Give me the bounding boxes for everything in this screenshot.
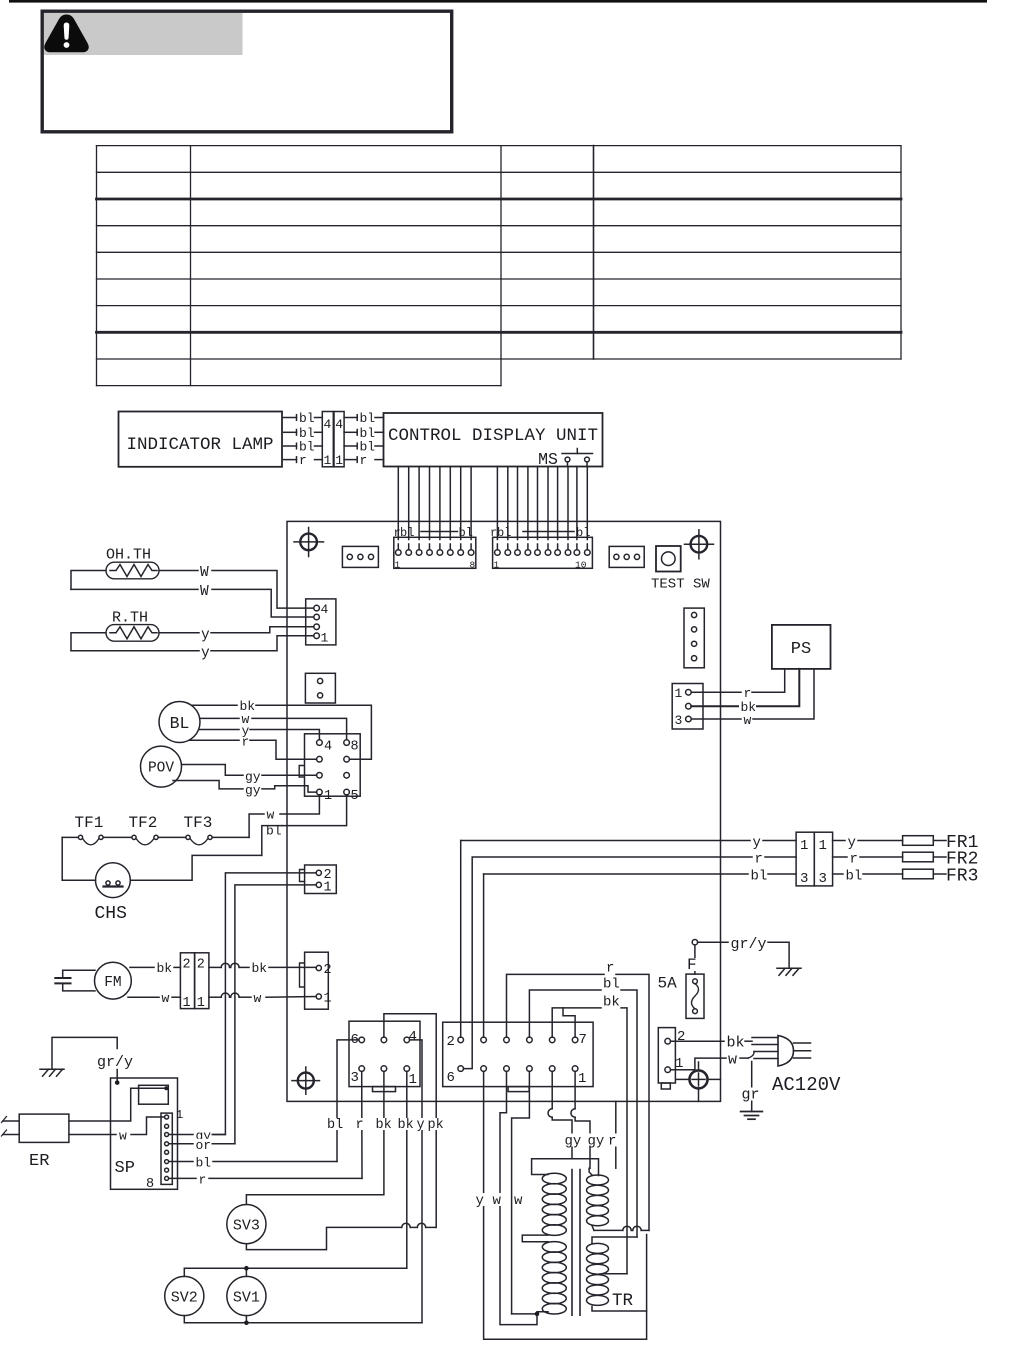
svg-text:w: w xyxy=(744,713,752,728)
wire bk CN-D pin2 to PS xyxy=(691,669,799,715)
svg-text:W: W xyxy=(200,584,209,600)
mounting hole bottom-left xyxy=(292,1067,320,1094)
AC plug cord xyxy=(748,1038,778,1059)
wire w ER to SP pin1 xyxy=(69,1117,164,1144)
solenoid valve SV2 xyxy=(165,1276,204,1315)
wire TR primary bottom lead xyxy=(512,1312,548,1317)
wire r to fuse FR2 xyxy=(833,852,903,868)
svg-text:y: y xyxy=(201,646,210,662)
svg-text:1: 1 xyxy=(395,560,401,571)
svg-text:bl: bl xyxy=(327,1118,343,1133)
wire y BL to CN-G pin4 xyxy=(199,724,320,740)
svg-text:8: 8 xyxy=(470,560,476,571)
svg-text:CHS: CHS xyxy=(95,904,127,924)
connector CN1 (8 pin) xyxy=(394,537,476,570)
mounting hole top-left xyxy=(294,528,324,557)
svg-text:5A: 5A xyxy=(658,975,678,993)
thermistor R.TH xyxy=(106,625,159,642)
indicator lamp box xyxy=(119,412,283,467)
wire bundle CDU to CN2 (10 wires) xyxy=(497,467,587,540)
wire bl CN-M to FR3 xyxy=(484,869,796,1038)
svg-text:w: w xyxy=(514,1193,523,1209)
solenoid valve SV1 xyxy=(227,1276,266,1315)
svg-text:2: 2 xyxy=(183,958,191,973)
thermal fuse TF2 label xyxy=(129,814,158,832)
svg-text:SV2: SV2 xyxy=(171,1290,198,1307)
svg-text:4: 4 xyxy=(324,417,332,432)
transformer TR primary winding lower xyxy=(542,1242,566,1314)
svg-text:8: 8 xyxy=(146,1177,154,1192)
svg-text:w: w xyxy=(267,808,275,823)
wire gy POV to CN-G pin1 xyxy=(173,781,317,799)
wire bl to fuse FR3 xyxy=(833,869,903,885)
thermal fuse TF3 label xyxy=(184,814,213,832)
svg-text:gr/y: gr/y xyxy=(731,936,767,953)
svg-text:W: W xyxy=(200,565,209,581)
thermistor OH.TH xyxy=(106,562,159,579)
svg-text:10: 10 xyxy=(575,560,587,571)
svg-text:1: 1 xyxy=(819,838,827,854)
svg-text:bk: bk xyxy=(603,994,620,1010)
fan motor FM xyxy=(95,962,132,999)
svg-text:1: 1 xyxy=(409,1072,417,1088)
svg-text:bl: bl xyxy=(751,869,768,885)
wire w CN-I to CN-J pin1 xyxy=(209,991,316,1006)
svg-text:1: 1 xyxy=(324,453,332,468)
AC120V label xyxy=(772,1074,841,1096)
wire bk CN-L pin1 to SV1/SV2 top bus xyxy=(406,1071,408,1268)
wires indicator lamp to connector (bl,bl,bl,r) xyxy=(284,411,323,468)
connector CN-I (2x2) xyxy=(180,953,209,1011)
wire bk BL to CN-G pin7 xyxy=(192,699,372,759)
thermal fuse TF3 xyxy=(186,835,212,844)
thermistor OH.TH label xyxy=(106,547,151,564)
wire r CN-M pin3 to TR secondary xyxy=(507,961,650,1231)
svg-text:1: 1 xyxy=(324,789,332,804)
connector CN-FR (1/3 pair) xyxy=(796,832,833,887)
wire W OH.TH top to CN-E pin4 xyxy=(71,565,314,608)
svg-text:r: r xyxy=(608,1134,616,1150)
svg-text:y: y xyxy=(848,835,856,851)
svg-text:TR: TR xyxy=(612,1291,634,1311)
wire CN-M pin7 stub xyxy=(563,1008,575,1037)
svg-text:bl: bl xyxy=(266,824,282,839)
svg-text:4: 4 xyxy=(324,740,332,755)
svg-text:bl: bl xyxy=(360,411,376,426)
svg-text:r: r xyxy=(606,961,614,977)
wire y R.TH return to CN-E pin1 xyxy=(71,636,314,662)
thermal fuse TF2 xyxy=(132,835,158,844)
svg-text:w: w xyxy=(493,1193,502,1209)
svg-text:pk: pk xyxy=(428,1118,444,1133)
connector CN1 (8 pin) label row xyxy=(394,526,473,540)
connector CN-M (12 pin) xyxy=(443,1022,593,1091)
wire r CN-L pin3 to SP r xyxy=(361,1071,363,1178)
svg-text:1: 1 xyxy=(578,1071,586,1087)
wire y to fuse FR1 xyxy=(833,835,903,851)
wire y CN-L pin4 to SV1/SV2 bottom bus xyxy=(410,1040,422,1323)
control display unit U1 xyxy=(384,413,603,467)
wire ER to SP block xyxy=(69,1088,131,1121)
svg-text:gy: gy xyxy=(565,1134,582,1150)
connector CN-B (3 pin) xyxy=(609,546,644,567)
connector CN-G (8 pin) xyxy=(299,734,360,804)
wire y R.TH top to CN-E pin2 xyxy=(71,627,314,651)
wire label row below board (bl r bk bk y pk) xyxy=(326,1118,444,1133)
wire bl CN-L pin6 to SP bl xyxy=(337,1040,359,1162)
svg-text:r: r xyxy=(755,852,763,868)
wire r TR top lead xyxy=(615,1101,617,1168)
transformer TR core xyxy=(572,1170,580,1316)
svg-text:r: r xyxy=(744,686,752,701)
warning box xyxy=(42,11,452,132)
wire gy2 CN-M to TR xyxy=(571,1071,590,1168)
thermal fuse TF1 xyxy=(78,835,103,844)
wire r BL to CN-G pin3 xyxy=(189,735,317,760)
fuse F 5A xyxy=(686,974,704,1018)
svg-text:bk: bk xyxy=(398,1118,414,1133)
svg-text:y: y xyxy=(417,1118,425,1133)
svg-text:TEST SW: TEST SW xyxy=(651,577,710,593)
TR label xyxy=(612,1291,634,1311)
svg-text:gr/y: gr/y xyxy=(97,1054,133,1071)
wire SV top bus xyxy=(184,1266,406,1277)
svg-text:8: 8 xyxy=(351,740,359,755)
wire TR secondary mid lead (r) xyxy=(592,1226,649,1231)
switch MS contacts xyxy=(562,449,593,467)
AC plug xyxy=(778,1036,811,1067)
chassis ground G2 xyxy=(768,942,801,975)
svg-text:bl: bl xyxy=(196,1156,212,1171)
thermal fuse TF1 label xyxy=(75,814,104,832)
svg-text:3: 3 xyxy=(675,713,683,728)
wire TR primary inter-winding link xyxy=(522,1235,548,1242)
svg-text:bl: bl xyxy=(603,977,620,993)
svg-text:r: r xyxy=(299,453,307,468)
damper motor POV xyxy=(141,746,182,787)
svg-text:or: or xyxy=(196,1138,212,1153)
compressor overload CHS xyxy=(96,863,131,898)
transformer TR primary winding upper xyxy=(542,1173,566,1235)
wire r SP pin8 xyxy=(169,1172,362,1187)
label row gy gy r xyxy=(564,1134,618,1150)
svg-text:2: 2 xyxy=(677,1029,685,1045)
wire gr earth xyxy=(741,1062,760,1112)
switch MS label xyxy=(538,450,558,469)
wire TR secondary bottom lead xyxy=(592,1307,647,1312)
svg-text:1: 1 xyxy=(176,1108,183,1122)
svg-text:TF1: TF1 xyxy=(75,814,104,832)
wire pk CN-L pin5 to SV3 return xyxy=(384,1014,436,1228)
wire or CN-H pin1 to SP pin4 xyxy=(200,885,316,1144)
wire TF chain xyxy=(62,836,249,838)
power supply PS xyxy=(772,625,831,669)
svg-text:1: 1 xyxy=(321,631,329,646)
signal processor SP xyxy=(111,1078,184,1192)
mounting hole bottom-right xyxy=(677,1062,721,1101)
transformer TR secondary winding upper xyxy=(587,1175,609,1226)
svg-text:CONTROL DISPLAY UNIT: CONTROL DISPLAY UNIT xyxy=(388,426,598,446)
svg-text:r: r xyxy=(356,1118,364,1133)
wire TR secondary top lead xyxy=(589,1168,592,1175)
wire gy CN-M to TR xyxy=(548,1071,572,1158)
blower motor BL xyxy=(159,702,200,743)
chassis ground G1 xyxy=(40,1037,117,1076)
svg-text:POV: POV xyxy=(148,761,174,777)
svg-text:4: 4 xyxy=(335,417,343,432)
svg-text:SV3: SV3 xyxy=(233,1218,260,1235)
wire ER mains leads xyxy=(2,1117,20,1137)
svg-text:6: 6 xyxy=(447,1070,455,1086)
page top rule xyxy=(9,0,987,3)
svg-text:1: 1 xyxy=(800,838,808,854)
wire SV3 return xyxy=(246,1223,436,1249)
svg-text:3: 3 xyxy=(800,871,808,887)
svg-text:AC120V: AC120V xyxy=(772,1074,841,1096)
wire y CN-M pin2 to FR1 xyxy=(461,835,796,1037)
svg-text:INDICATOR LAMP: INDICATOR LAMP xyxy=(126,435,273,455)
svg-text:SP: SP xyxy=(115,1159,135,1178)
svg-text:1: 1 xyxy=(183,996,191,1011)
connector CN2 (10 pin) xyxy=(493,537,593,570)
svg-text:r: r xyxy=(199,1172,207,1187)
svg-text:SV1: SV1 xyxy=(233,1290,260,1307)
PCB board outline xyxy=(287,521,721,1101)
svg-text:1: 1 xyxy=(675,686,683,701)
svg-text:F: F xyxy=(687,956,697,974)
wire TR secondary lower top lead (bl) xyxy=(592,1237,637,1244)
svg-text:bl: bl xyxy=(846,869,863,885)
svg-text:gy: gy xyxy=(245,783,261,798)
thermistor R.TH label xyxy=(112,610,148,627)
wire gy POV to CN-G pin2 xyxy=(182,765,317,785)
svg-text:FR3: FR3 xyxy=(946,867,978,887)
SP pin strip xyxy=(161,1113,172,1184)
svg-text:1: 1 xyxy=(324,992,332,1007)
CHS label xyxy=(95,904,127,924)
wire W OH.TH return to CN-E pin3 xyxy=(71,584,314,617)
svg-text:bk: bk xyxy=(727,1035,745,1052)
test point gr/y xyxy=(692,936,766,974)
wire w BL to CN-G pin8 xyxy=(200,712,347,740)
wire w CN-G pin1 to TF3 xyxy=(249,795,319,838)
wire w FM to CN-I xyxy=(128,991,180,1006)
warning header band xyxy=(44,13,243,55)
svg-text:w: w xyxy=(119,1129,127,1144)
fuse F labels xyxy=(658,956,698,993)
connector CN-H (2 pin) xyxy=(300,865,337,896)
svg-text:ER: ER xyxy=(29,1152,49,1171)
svg-text:1: 1 xyxy=(324,881,332,896)
fuse FR2 xyxy=(903,850,979,870)
SP internal block xyxy=(131,1085,169,1104)
svg-text:gy: gy xyxy=(588,1134,605,1150)
fuse FR3 xyxy=(903,867,979,887)
fuse FR1 xyxy=(903,833,979,853)
svg-text:3: 3 xyxy=(351,1070,359,1086)
svg-text:bk: bk xyxy=(376,1118,392,1133)
wire SV bottom bus xyxy=(184,1316,422,1326)
svg-text:TF3: TF3 xyxy=(184,814,213,832)
wire bk AC line xyxy=(671,1035,753,1052)
connector CN-lamp (4/1 pair) xyxy=(322,412,344,469)
svg-text:4: 4 xyxy=(409,1029,417,1045)
svg-text:w: w xyxy=(728,1052,737,1069)
connector CN-F (2 pin spare) xyxy=(305,673,335,703)
connector CN-D (3 pin) xyxy=(672,684,703,730)
wire w AC line xyxy=(671,1052,749,1070)
svg-text:2: 2 xyxy=(324,963,332,978)
wire bl SP pin6 xyxy=(169,1156,337,1171)
node gr/y SP xyxy=(97,1054,133,1085)
svg-text:r: r xyxy=(242,735,250,750)
wire TR secondary tap (bk) xyxy=(604,1273,627,1275)
svg-text:r: r xyxy=(850,852,858,868)
wire bl CN-M pin4 to TR secondary xyxy=(529,977,637,1238)
wire CHS to CN-G pin5 branch xyxy=(130,855,261,880)
wire TF1 to CHS xyxy=(62,837,95,880)
svg-text:bk: bk xyxy=(252,961,268,976)
svg-text:3: 3 xyxy=(819,871,827,887)
svg-text:w: w xyxy=(254,991,262,1006)
wire gy SP pin3 xyxy=(169,1129,226,1144)
wire r CN-M pin6 to FR2 xyxy=(464,852,797,1069)
svg-text:y: y xyxy=(753,835,761,851)
svg-text:5: 5 xyxy=(351,789,359,804)
svg-text:2: 2 xyxy=(197,958,205,973)
svg-text:2: 2 xyxy=(447,1034,455,1050)
svg-text:TF2: TF2 xyxy=(129,814,158,832)
heater ER xyxy=(19,1114,69,1171)
connector CN-C (4 pin vertical) xyxy=(684,608,704,668)
connector CN-L (6 pin) xyxy=(349,1021,420,1091)
svg-text:1: 1 xyxy=(494,560,500,571)
wire bk CN-L pin2 to SV3 xyxy=(246,1071,384,1204)
svg-text:PS: PS xyxy=(791,640,811,659)
svg-text:y: y xyxy=(201,628,210,644)
table grid xyxy=(97,146,902,386)
wire bk FM to CN-I xyxy=(130,961,180,976)
wire gy CN-H pin2 to SP pin3 xyxy=(200,873,316,1135)
wires connector to CDU (bl,bl,bl,r) xyxy=(344,411,383,468)
solenoid valve SV3 xyxy=(227,1205,266,1244)
wire bk CN-M pin5 to TR secondary xyxy=(552,994,627,1273)
svg-text:1: 1 xyxy=(335,453,343,468)
svg-text:gr: gr xyxy=(742,1087,760,1104)
wire w CN-M to TR primary (w2) xyxy=(512,1071,530,1314)
test switch TEST SW xyxy=(651,546,710,593)
svg-text:1: 1 xyxy=(197,996,205,1011)
wire bk CN-I to CN-J pin2 xyxy=(209,961,316,976)
wire TR primary top lead xyxy=(532,1159,599,1176)
connector CN-J (2 pin) xyxy=(300,952,332,1009)
label row y w w xyxy=(475,1193,526,1209)
connector CN-E (4 pin thermistor) xyxy=(306,599,336,646)
svg-text:OH.TH: OH.TH xyxy=(106,547,151,564)
svg-text:r: r xyxy=(360,453,368,468)
svg-text:7: 7 xyxy=(579,1032,587,1048)
svg-text:FM: FM xyxy=(104,975,121,991)
mounting hole top-right xyxy=(685,530,714,559)
wire w CN-D pin3 to PS xyxy=(691,669,814,728)
wire r CN-D pin1 to PS xyxy=(691,669,785,701)
warning triangle icon xyxy=(44,15,89,53)
svg-text:BL: BL xyxy=(170,714,190,733)
wire w CN-M to TR primary (w1) xyxy=(500,1071,537,1324)
svg-text:bl: bl xyxy=(299,411,315,426)
wire bundle CDU to CN1 (8 wires) xyxy=(398,467,471,540)
transformer TR secondary winding lower xyxy=(587,1243,609,1305)
connector CN2 (10 pin) label row xyxy=(490,526,590,540)
earth ground G3 xyxy=(741,1112,763,1120)
capacitor C1 xyxy=(55,970,95,991)
connector CN-N (2 pin AC) xyxy=(658,1028,685,1089)
connector CN-A (3 pin) xyxy=(342,546,378,567)
wire y CN-M to TR outer loop xyxy=(484,1071,647,1339)
wire or SP pin4 xyxy=(169,1138,235,1153)
svg-text:y: y xyxy=(476,1193,484,1209)
svg-text:w: w xyxy=(162,991,170,1006)
wire bl CN-G pin5 to CHS xyxy=(262,795,347,856)
svg-text:bk: bk xyxy=(157,961,173,976)
svg-text:4: 4 xyxy=(321,602,329,617)
